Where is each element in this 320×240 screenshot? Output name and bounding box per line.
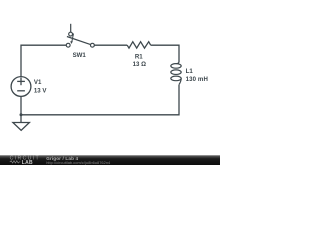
- node junction dot: [20, 113, 23, 116]
- svg-text:SW1: SW1: [73, 52, 87, 59]
- SW1 actuation arrow head: [70, 41, 73, 44]
- wire: R1 to top-right corner down to L1: [151, 45, 179, 62]
- svg-text:13 V: 13 V: [34, 87, 47, 94]
- SW1 top throw stub wire: [70, 24, 72, 32]
- wire: V1 bottom down to junction: [20, 96, 22, 115]
- inductor L1 coil: [171, 62, 181, 85]
- V1 body circle: [11, 77, 31, 97]
- ground: [13, 123, 30, 131]
- V1 plus sign horizontal: [17, 80, 25, 82]
- footer bar: [0, 155, 220, 165]
- logo resistor zigzag: [10, 161, 21, 163]
- V1 minus sign: [17, 90, 25, 92]
- voltage source V1: [11, 77, 31, 97]
- svg-text:130 mH: 130 mH: [186, 76, 208, 83]
- L1 coil entry hook: [177, 62, 179, 64]
- SW1 top throw terminal circle: [69, 32, 73, 36]
- SW1 actuation arrow shaft: [72, 34, 74, 42]
- V1 plus sign vertical: [20, 78, 22, 86]
- svg-text:LAB: LAB: [22, 160, 33, 165]
- resistor R1: [127, 42, 151, 48]
- SW1 left terminal circle: [66, 43, 70, 47]
- wire: V1 top up left side and across top to SW1: [21, 45, 66, 76]
- svg-text:13 Ω: 13 Ω: [133, 61, 146, 68]
- L1 coil loop 2: [171, 70, 181, 75]
- SW1 right terminal circle: [91, 43, 95, 47]
- svg-text:L1: L1: [186, 68, 194, 75]
- svg-text:R1: R1: [135, 54, 143, 61]
- wire: junction down to ground: [20, 115, 22, 123]
- svg-text:V1: V1: [34, 79, 42, 86]
- L1 coil exit hook: [179, 78, 181, 84]
- L1 coil loop 3: [171, 76, 181, 81]
- SW1 blade: [67, 37, 91, 45]
- L1 coil loop 1: [171, 64, 181, 69]
- switch SW1: [66, 24, 94, 47]
- wire: SW1 right terminal to R1: [94, 44, 127, 46]
- svg-text:http://circuitlab.com/c/ju8b6u: http://circuitlab.com/c/ju8b6u8762n4: [46, 160, 111, 165]
- wire: L1 bottom to bottom-right corner and across bottom: [21, 85, 179, 115]
